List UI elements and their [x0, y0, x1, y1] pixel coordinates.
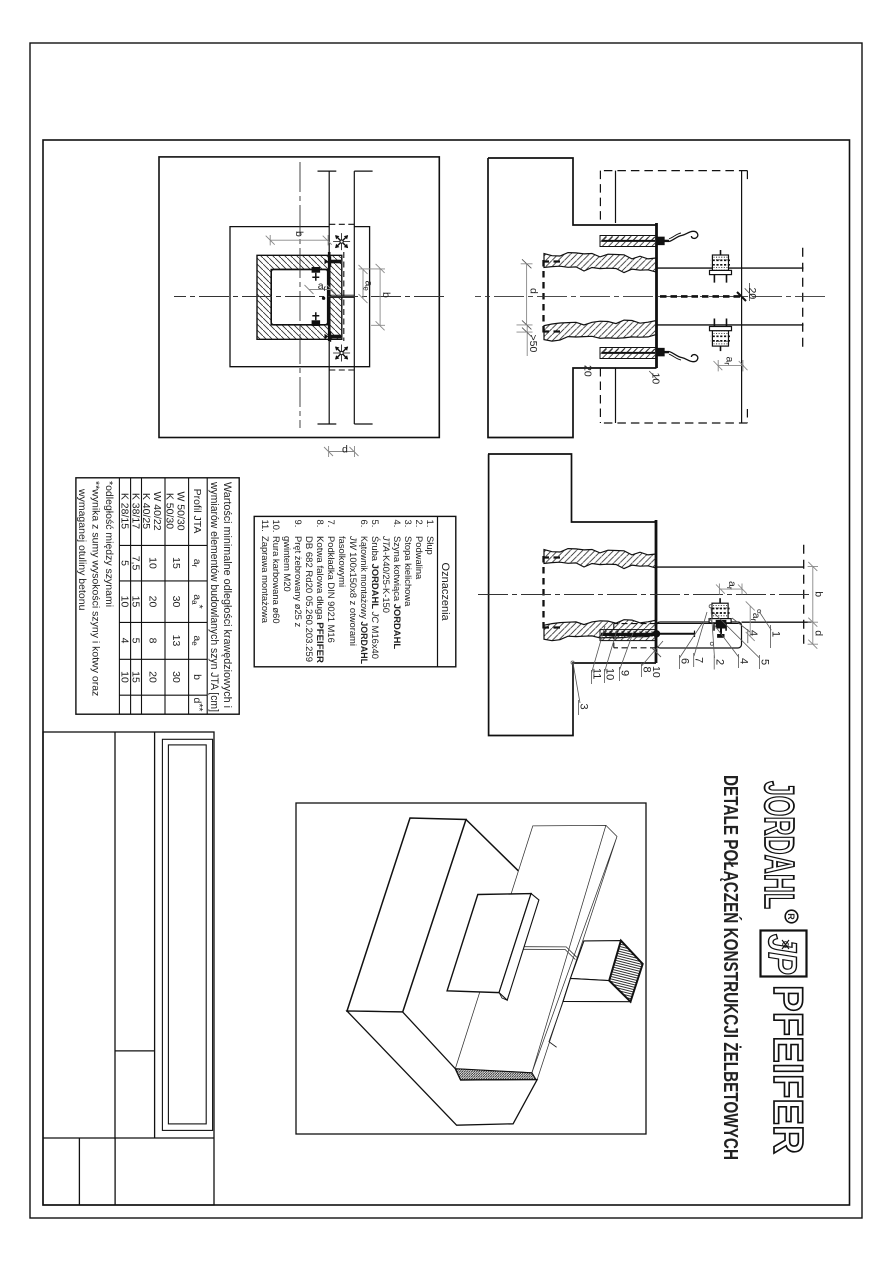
JTA table: [76, 478, 239, 714]
svg-text:3: 3: [578, 704, 590, 710]
svg-text:JORDAHL: JORDAHL: [756, 781, 803, 909]
svg-text:1.: 1.: [425, 520, 436, 528]
hidden rail edge under beam (dashed): [343, 252, 345, 341]
svg-text:7: 7: [693, 657, 705, 663]
socket hidden outline (bold dashed): [544, 260, 561, 333]
svg-text:11.: 11.: [260, 520, 271, 532]
svg-text:b: b: [191, 674, 203, 680]
beam near edge solid segments: [615, 171, 617, 423]
svg-text:Podwalina: Podwalina: [414, 536, 425, 580]
svg-text:DB 682 Rd20 05.260.203.259: DB 682 Rd20 05.260.203.259: [304, 536, 315, 662]
svg-text:6: 6: [679, 658, 691, 664]
column stub cut end (hatched): [609, 941, 643, 1002]
svg-text:15: 15: [130, 671, 142, 683]
svg-text:b: b: [380, 292, 392, 298]
svg-text:2.: 2.: [414, 520, 425, 528]
beam seat ledge: [523, 947, 577, 960]
svg-text:4: 4: [118, 638, 130, 644]
svg-text:Pręt żebrowany ø25 z: Pręt żebrowany ø25 z: [293, 536, 304, 627]
svg-text:6.: 6.: [359, 520, 370, 528]
svg-text:R: R: [786, 913, 796, 920]
svg-text:20: 20: [582, 365, 594, 377]
svg-text:9.: 9.: [293, 520, 304, 528]
svg-text:10: 10: [118, 596, 130, 608]
svg-text:10: 10: [604, 668, 616, 680]
view 3 : section through beam seat, right: [475, 454, 811, 736]
svg-text:10.: 10.: [271, 520, 282, 533]
centerlines: [299, 162, 301, 428]
svg-text:10: 10: [118, 671, 130, 683]
beam far edge: [741, 171, 743, 423]
JTA channel under beam: [600, 630, 657, 641]
channel bolts on rail (plan): [325, 256, 342, 342]
view 2 : cross-section of socket foundation with column and beam: [475, 158, 825, 438]
column side strips in socket: [544, 253, 656, 273]
svg-text:ar: ar: [749, 613, 762, 622]
svg-text:10: 10: [650, 666, 662, 678]
anchor rod with ribs (pret zebrowany): [601, 631, 695, 637]
svg-text:Szyna kotwiąca JORDAHL: Szyna kotwiąca JORDAHL: [392, 536, 403, 649]
socket edge (plan, square): [230, 227, 370, 367]
column edge below beam: [549, 1002, 563, 1047]
svg-text:15: 15: [130, 596, 142, 608]
angle assembly at beam top: [709, 598, 731, 631]
svg-text:wymiarów elementów budowlanych: wymiarów elementów budowlanych szyn JTA …: [208, 481, 220, 712]
svg-text:aa*: aa*: [190, 594, 205, 608]
svg-text:13: 13: [170, 635, 182, 647]
svg-text:K 40/25: K 40/25: [140, 493, 152, 529]
svg-text:Podkładka DIN 9021 M16: Podkładka DIN 9021 M16: [326, 536, 337, 643]
JORDAHL logo: [756, 781, 803, 923]
svg-text:*odległość między szynami: *odległość między szynami: [103, 481, 115, 607]
view 2 dimensions: [517, 259, 754, 380]
svg-text:20: 20: [147, 596, 159, 608]
socket mouth face (thick): [655, 520, 658, 663]
svg-text:K 28/15: K 28/15: [118, 493, 130, 529]
recess hidden outline (dashed): [614, 624, 656, 648]
svg-text:4.: 4.: [392, 520, 403, 528]
column stub top face: [570, 941, 621, 981]
3D isometric view box: [296, 803, 646, 1134]
view 3 dimensions: [652, 562, 818, 657]
svg-text:fasolkowymi: fasolkowymi: [337, 536, 348, 587]
svg-text:7.: 7.: [326, 520, 337, 528]
legend box Oznaczenia: [254, 516, 456, 666]
beam hidden outline (dashed verticals): [600, 170, 747, 172]
svg-text:d: d: [813, 630, 825, 636]
svg-text:d: d: [528, 288, 540, 294]
svg-text:30: 30: [170, 671, 182, 683]
svg-text:>50: >50: [527, 335, 539, 353]
title block: [43, 732, 214, 1205]
column break line (dashed): [803, 545, 805, 644]
socket hidden outline (bold dashed): [544, 556, 561, 629]
svg-text:5: 5: [759, 659, 771, 665]
beam end (rounded rect): [657, 622, 742, 648]
svg-text:Zaprawa montażowa: Zaprawa montażowa: [260, 536, 271, 624]
svg-text:DETALE POŁĄCZEŃ KONSTRUKCJI ŻE: DETALE POŁĄCZEŃ KONSTRUKCJI ŻELBETOWYCH: [719, 775, 742, 1160]
svg-text:PFEIFER: PFEIFER: [765, 985, 812, 1154]
svg-text:JTA-K40/25-K-150: JTA-K40/25-K-150: [381, 535, 392, 613]
column side strips in socket: [544, 549, 656, 569]
slab top edge: [466, 820, 519, 872]
svg-text:Śruba JORDAHL JC M16x40: Śruba JORDAHL JC M16x40: [370, 536, 381, 659]
svg-text:d**: d**: [191, 697, 205, 711]
svg-text:8.: 8.: [315, 520, 326, 528]
svg-text:7,5: 7,5: [130, 556, 142, 571]
drawing frame: [43, 140, 850, 1205]
svg-text:W 50/30: W 50/30: [175, 491, 187, 530]
svg-text:ar: ar: [725, 581, 738, 590]
beam cut section (hatched): [455, 1069, 536, 1080]
svg-text:Oznaczenia: Oznaczenia: [439, 563, 451, 622]
foundation slab bottom face: [347, 1011, 537, 1125]
svg-text:**wynika z sumy wysokości szyn: **wynika z sumy wysokości szyny i kotwy …: [90, 481, 102, 696]
svg-text:Rura karbowana ø60: Rura karbowana ø60: [271, 536, 282, 624]
anchor bolts in walls (plan): [312, 267, 321, 326]
svg-text:15: 15: [170, 557, 182, 569]
svg-text:5: 5: [130, 638, 142, 644]
svg-text:8: 8: [147, 638, 159, 644]
socket mouth face (thick): [655, 223, 658, 368]
svg-text:JW 100x150x8 z otworami: JW 100x150x8 z otworami: [348, 535, 359, 646]
svg-text:5.: 5.: [370, 520, 381, 528]
column break line (dashed): [802, 248, 804, 347]
socket edge hidden under beam (dashed): [329, 224, 354, 370]
svg-text:Kotwa falowa długa PFEIFER: Kotwa falowa długa PFEIFER: [315, 536, 326, 663]
svg-text:wymaganej otuliny betonu: wymaganej otuliny betonu: [76, 488, 88, 611]
svg-text:gwintem M20: gwintem M20: [282, 536, 293, 592]
svg-text:1: 1: [770, 631, 782, 637]
svg-text:ar: ar: [190, 559, 203, 568]
svg-text:b: b: [293, 231, 305, 237]
foundation slab side face: [347, 818, 466, 1012]
svg-text:ae: ae: [362, 281, 375, 292]
beam edges (plan): [353, 171, 355, 424]
svg-text:10: 10: [650, 373, 662, 385]
fixing star symbols: [333, 233, 350, 250]
svg-text:d: d: [342, 443, 348, 455]
JP logo box: [760, 931, 807, 977]
thick tick at beam edge on axis: [737, 292, 746, 301]
svg-text:K 50/30: K 50/30: [164, 493, 176, 529]
foundation outline (plan): [159, 157, 439, 438]
bolt assembly left: [710, 250, 732, 283]
column block side strip: [499, 894, 539, 1001]
bolt assembly right: [710, 319, 732, 352]
svg-text:20: 20: [147, 671, 159, 683]
svg-text:30: 30: [170, 596, 182, 608]
svg-text:10: 10: [147, 557, 159, 569]
JTA channels at face: [600, 236, 657, 247]
svg-text:ar: ar: [318, 280, 327, 293]
svg-text:20: 20: [746, 288, 758, 300]
svg-text:Kątownik montażowy JORDAHL: Kątownik montażowy JORDAHL: [359, 536, 370, 664]
beam (podwalina) thin outline: [455, 825, 606, 1072]
column walls hatched ring (plan): [257, 255, 342, 339]
svg-text:Stopa kielichowa: Stopa kielichowa: [403, 536, 414, 607]
view 1 : plan of column in socket foundation: [159, 157, 444, 438]
foundation block outline: [488, 454, 656, 736]
svg-text:4: 4: [738, 658, 750, 664]
bolt with washer into beam: [716, 620, 726, 637]
column edges above mouth: [656, 567, 811, 622]
rail hidden edge on axis (bold dashed): [656, 295, 740, 298]
beam left edge double line: [656, 623, 742, 625]
column block face: [447, 894, 531, 993]
svg-text:ar: ar: [723, 357, 736, 366]
column edges above mouth: [657, 268, 804, 325]
centerline: [475, 295, 825, 297]
svg-text:Słup: Słup: [425, 536, 436, 555]
svg-text:2: 2: [714, 659, 726, 665]
centerline: [475, 594, 809, 596]
svg-text:K 38/17: K 38/17: [130, 493, 142, 529]
view 1 dimensions: [266, 235, 385, 457]
foundation block outline: [488, 158, 657, 438]
svg-text:5: 5: [118, 560, 130, 566]
svg-text:Profil JTA: Profil JTA: [191, 489, 203, 534]
beam end caps: [318, 171, 373, 424]
view 3 leader labels: [571, 605, 771, 715]
svg-text:9: 9: [619, 670, 631, 676]
svg-text:3.: 3.: [403, 520, 414, 528]
svg-text:ae: ae: [190, 635, 203, 646]
svg-text:11: 11: [591, 668, 603, 679]
svg-text:b: b: [813, 591, 825, 597]
wave anchors: [657, 231, 698, 361]
rail seen edge-on at axis: [329, 295, 355, 297]
svg-text:W 40/22: W 40/22: [151, 491, 163, 530]
column stub bottom face: [563, 978, 630, 1001]
svg-text:Wartości minimalne odległości: Wartości minimalne odległości krawędziow…: [221, 482, 233, 708]
